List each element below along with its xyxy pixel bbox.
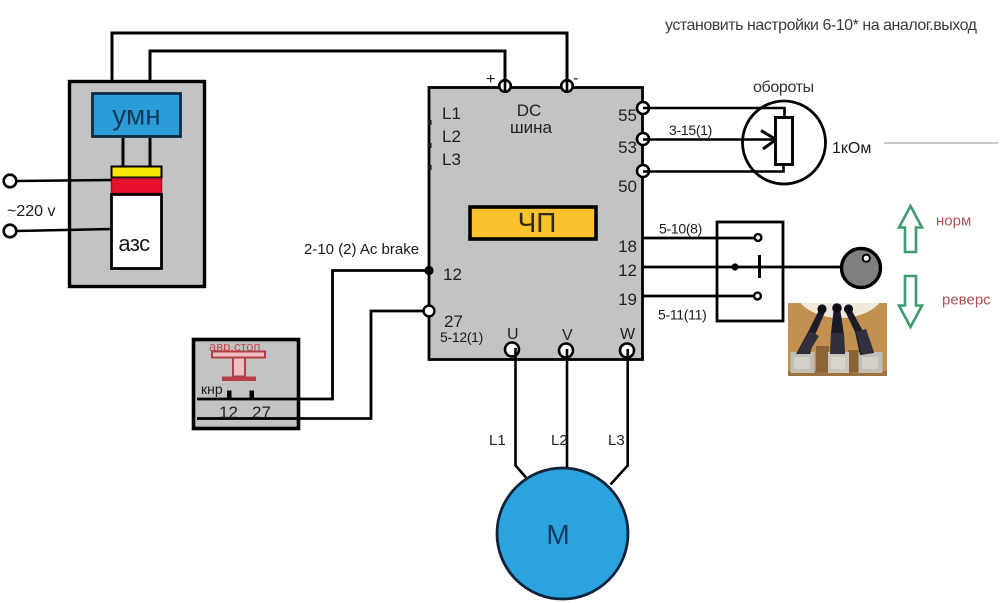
wire 12 to knob (643, 266, 841, 269)
wire 53 wiper (643, 138, 774, 141)
enclosure box left (70, 82, 205, 287)
block УМН (93, 94, 181, 137)
wire УМН to АЗС right (149, 138, 152, 166)
frequency converter body ЧП (429, 88, 643, 360)
e-stop base (222, 377, 256, 382)
svg-text:шина: шина (510, 118, 553, 137)
svg-text:L1: L1 (489, 432, 506, 449)
АЗС yellow stripe (112, 167, 162, 178)
svg-text:обороты: обороты (753, 79, 814, 96)
svg-text:12: 12 (219, 403, 238, 422)
svg-text:кнр: кнр (201, 381, 223, 397)
terminal 55 (637, 102, 649, 114)
knob indicator (863, 255, 870, 262)
svg-text:+: + (486, 71, 495, 88)
switch box (717, 222, 783, 321)
АЗС red stripe (112, 179, 162, 194)
contact tick right (250, 391, 255, 400)
wire stub plus (504, 81, 507, 92)
svg-text:5-12(1): 5-12(1) (440, 329, 483, 345)
terminal 27 left (424, 306, 435, 317)
contact tick left (227, 391, 232, 400)
terminal V (559, 344, 573, 358)
pot element body (776, 118, 793, 165)
terminal DC minus (561, 80, 573, 92)
svg-text:азс: азс (118, 231, 150, 256)
svg-text:12: 12 (443, 265, 462, 284)
middle connector (828, 352, 849, 373)
wire stop button to 12 (197, 271, 425, 400)
svg-text:L3: L3 (608, 432, 625, 449)
svg-text:ЧП: ЧП (518, 207, 557, 238)
svg-text:L2: L2 (442, 127, 461, 146)
terminal 50 (637, 165, 649, 177)
svg-text:19: 19 (618, 290, 637, 309)
svg-text:2-10 (2) Ac brake: 2-10 (2) Ac brake (304, 241, 419, 258)
svg-text:12: 12 (618, 261, 637, 280)
wire W to motor (611, 349, 628, 485)
wire 18 to switch (643, 237, 756, 240)
wire 50 to pot bottom (643, 165, 784, 172)
wire stub minus (566, 81, 569, 92)
switch contact top (755, 234, 762, 241)
wire: УМН to minus terminal (112, 33, 567, 93)
svg-text:L2: L2 (551, 432, 568, 449)
right connector (859, 352, 883, 373)
potentiometer circle (743, 101, 826, 184)
switch lever bar (758, 255, 761, 278)
divider line right (884, 142, 998, 144)
switch common dot (731, 263, 738, 270)
nameplate ЧП (470, 207, 596, 239)
svg-text:V: V (562, 327, 573, 344)
svg-text:реверс: реверс (942, 292, 991, 309)
tick L2 (428, 143, 432, 148)
tick L3 (428, 165, 432, 170)
svg-text:1кОм: 1кОм (832, 140, 871, 157)
svg-text:~220 v: ~220 v (7, 203, 55, 220)
stop button box (194, 340, 299, 429)
svg-text:55: 55 (618, 106, 637, 125)
wire stop button to 27 (197, 311, 423, 419)
svg-text:5-10(8): 5-10(8) (659, 221, 702, 237)
e-stop mushroom top (212, 352, 265, 358)
wire: УМН to plus terminal (150, 51, 505, 93)
arrow up норм (899, 206, 922, 252)
terminal 12 left (424, 266, 433, 275)
svg-text:U: U (507, 326, 519, 343)
terminal U (505, 343, 519, 357)
terminal 53 (637, 133, 649, 145)
wire 220v top (16, 180, 112, 181)
wire U to motor (516, 348, 527, 478)
photo connectors (788, 260, 887, 376)
wire УМН to АЗС left (122, 138, 125, 166)
svg-text:W: W (620, 326, 636, 343)
switch contact bottom (754, 293, 761, 300)
shadow strip left (816, 346, 829, 372)
e-stop stem (233, 358, 245, 377)
svg-text:M: M (546, 519, 569, 550)
svg-text:18: 18 (618, 237, 637, 256)
svg-text:3-15(1): 3-15(1) (669, 122, 712, 138)
svg-text:L3: L3 (442, 150, 461, 169)
svg-text:53: 53 (618, 138, 637, 157)
wire 220v bottom (16, 229, 112, 231)
tick L1 (428, 120, 432, 125)
svg-text:50: 50 (618, 177, 637, 196)
svg-text:норм: норм (936, 213, 971, 230)
svg-text:умн: умн (112, 100, 160, 131)
svg-text:27: 27 (252, 403, 271, 422)
arrow down реверс (899, 276, 922, 327)
wire 55 to pot top (643, 108, 785, 118)
wire 19 to switch (643, 295, 755, 298)
shadow strip right (848, 350, 860, 372)
wiper arrowhead (761, 131, 776, 150)
svg-text:установить настройки 6-10* на: установить настройки 6-10* на аналог.вых… (665, 17, 978, 34)
terminal W (620, 344, 634, 358)
svg-text:L1: L1 (442, 104, 461, 123)
left connector (791, 352, 815, 373)
terminal 220v top (4, 175, 17, 188)
fuse АЗС body (112, 195, 162, 269)
wire V to motor (566, 349, 569, 467)
terminal 220v bottom (4, 225, 17, 238)
terminal DC plus (499, 80, 511, 92)
svg-text:5-11(11): 5-11(11) (658, 307, 706, 323)
motor M (497, 468, 628, 599)
knob (842, 249, 881, 288)
